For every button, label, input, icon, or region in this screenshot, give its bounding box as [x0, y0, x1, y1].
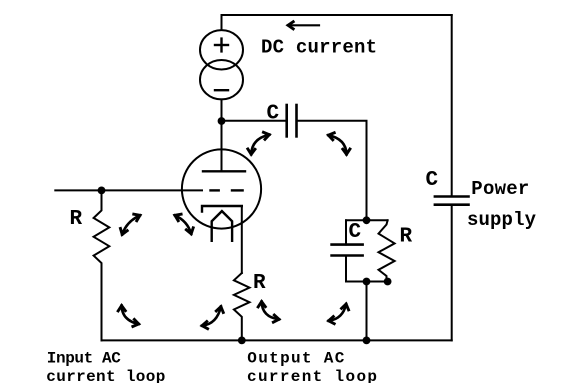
parallel RC: top tie bar [346, 219, 388, 221]
capacitor C1 right plate [295, 105, 298, 136]
arrow AC loop left of cathode resistor bottom [202, 307, 221, 326]
node: plate/battery/cap junction [218, 117, 226, 125]
resistor R1 (grid/input) zigzag [94, 190, 110, 266]
arrow AC loop bottom right (output loop) [329, 304, 347, 321]
node: RC resistor bottom junction [384, 278, 392, 286]
triode heater filament tent [212, 211, 232, 241]
wire bottom rail [102, 339, 452, 341]
node: RC bottom junction [363, 278, 371, 286]
triode cathode bar with left tick [202, 206, 242, 212]
svg-text:R: R [70, 208, 83, 231]
node: cathode resistor at bottom rail [238, 337, 246, 345]
capacitor C2 upper lead [345, 220, 347, 244]
battery V1 (DC source) top circle [200, 30, 243, 69]
resistor R3 (load) zigzag [379, 220, 395, 281]
triode plate bar [203, 170, 245, 172]
wire coupling cap to output corner [297, 121, 367, 221]
svg-text:R: R [253, 272, 266, 295]
battery V1 bottom circle [200, 60, 243, 99]
svg-text:supply: supply [467, 209, 537, 231]
triode grid dashes [211, 189, 243, 191]
wire plate lead (node down to tube plate) [221, 121, 223, 171]
svg-text:C: C [267, 102, 280, 125]
triode V2 envelope circle [182, 149, 261, 228]
capacitor C2 top plate [332, 243, 363, 246]
battery plus sign [215, 39, 228, 52]
node: output branch at bottom rail [363, 337, 371, 345]
arrow AC loop bottom middle (output loop) [262, 302, 279, 320]
battery minus sign [215, 89, 228, 91]
wire right vertical lower (power supply cap to bottom rail) [451, 205, 453, 341]
capacitor C1 (coupling) left plate [285, 105, 288, 136]
svg-text:Power: Power [471, 178, 529, 200]
svg-text:C: C [426, 169, 439, 192]
wire RC block down to bottom rail [366, 282, 368, 341]
wire battery negative lead down to node [221, 99, 223, 121]
arrow AC loop bottom left (input loop) [122, 306, 139, 324]
capacitor C2 bottom plate [332, 254, 363, 257]
svg-text:Input AC: Input AC [47, 349, 121, 367]
wire grid lead from input [55, 189, 202, 191]
svg-text:R: R [400, 226, 413, 249]
wire left vertical (input resistor lower lead to bottom rail) [101, 267, 103, 341]
svg-text:current loop: current loop [46, 368, 165, 383]
svg-text:Output AC: Output AC [247, 349, 344, 367]
parallel RC: bottom tie bar [346, 281, 388, 283]
capacitor C2 lower lead [345, 256, 347, 282]
wire cathode lead down [241, 206, 243, 273]
arrow AC loop left of tube cathode [175, 215, 191, 234]
wire top horizontal from battery to right side [222, 15, 452, 30]
arrow DC current (straight, points left) [288, 24, 319, 26]
arrow AC loop right of input resistor [122, 215, 140, 234]
node: grid input junction [98, 187, 106, 195]
resistor R2 (cathode) zigzag [234, 273, 250, 340]
capacitor C3 bottom plate [435, 203, 469, 206]
svg-text:C: C [349, 221, 362, 244]
svg-text:current loop: current loop [247, 368, 377, 383]
wire right vertical upper (to power supply cap) [451, 15, 453, 197]
arrow AC loop right of coupling cap [328, 135, 346, 154]
arrow AC loop left of coupling cap [251, 135, 269, 155]
svg-text:DC current: DC current [261, 37, 377, 59]
capacitor C3 (power supply) top plate [435, 195, 469, 198]
wire node to coupling cap left plate [222, 120, 287, 122]
node: RC top junction [363, 216, 371, 224]
